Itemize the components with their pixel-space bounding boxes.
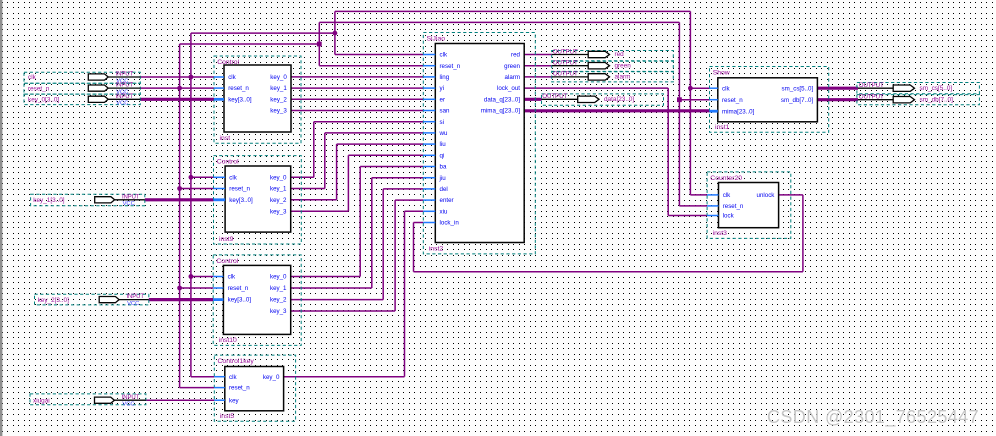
wire Control inst10 key_1 riser <box>371 178 373 288</box>
wire Counter20 unlock return y=271.7 <box>414 271 803 273</box>
svg-text:INPUT: INPUT <box>116 94 134 100</box>
svg-text:VCC: VCC <box>127 301 139 307</box>
svg-text:INPUT: INPUT <box>116 72 134 78</box>
svg-text:OUTPUT: OUTPUT <box>553 60 578 67</box>
input pin xiugai <box>30 394 146 405</box>
block Counter20 inst3 body <box>719 183 779 228</box>
wire clk net: into Counter20 clk <box>690 194 707 196</box>
wire clk net: riser x=334.9 <box>334 11 336 54</box>
svg-text:clk: clk <box>722 85 730 92</box>
junction reset_n at Control inst9 <box>177 186 182 191</box>
svg-text:key_0: key_0 <box>270 274 287 281</box>
svg-text:key_1: key_1 <box>270 85 287 92</box>
junction clk at input fanout <box>189 75 194 80</box>
SiJiao inst2 input pin stub jiu <box>423 177 435 179</box>
Control1key inst5 input pin stub key <box>214 399 225 401</box>
SiJiao inst2 input pin stub liu <box>423 143 435 145</box>
wire Control inst10 key_2 run <box>291 299 384 301</box>
wire xiugai to Control1key key <box>146 399 214 401</box>
svg-text:key_1: key_1 <box>270 186 287 193</box>
svg-text:OUTPUT: OUTPUT <box>859 94 884 101</box>
Control inst10 input pin stub reset_n <box>213 287 223 289</box>
svg-text:qi: qi <box>440 152 445 159</box>
svg-text:data_q[23..0]: data_q[23..0] <box>484 96 520 103</box>
Show inst1 input pin stub clk <box>710 87 718 89</box>
wire clk net: into Control1key clk <box>191 376 214 378</box>
svg-text:mima[23..0]: mima[23..0] <box>722 108 755 115</box>
svg-text:inst5: inst5 <box>220 413 235 420</box>
Counter20 inst3 input pin stub clk <box>707 194 718 196</box>
junction reset_n at Control inst10 <box>177 286 182 291</box>
wire Counter20 unlock run <box>779 194 803 196</box>
svg-text:key[3..0]: key[3..0] <box>228 297 252 304</box>
SiJiao inst2 input pin stub qi <box>423 154 435 156</box>
svg-text:liu: liu <box>440 141 447 148</box>
svg-text:key_2: key_2 <box>270 96 287 103</box>
wire SiJiao green to output pin <box>524 65 552 67</box>
svg-text:reset_n: reset_n <box>440 63 461 70</box>
wire SiJiao alarm to output pin <box>524 76 552 78</box>
svg-text:reset_n: reset_n <box>229 186 250 193</box>
wire Control inst9 key_3 into SiJiao <box>348 154 423 156</box>
wire bus key_0[3..0] to Control inst <box>140 98 214 101</box>
wire Control1key key_0 run <box>284 376 405 378</box>
wire bus Show sm_cs to output pin <box>817 87 858 90</box>
block Control inst10 body <box>223 265 290 334</box>
Control inst input pin stub reset_n <box>214 87 224 89</box>
SiJiao inst2 input pin stub si <box>423 121 435 123</box>
junction clk at Control inst10 <box>189 274 194 279</box>
wire clk net: right vertical x=690.4 <box>689 11 691 195</box>
svg-text:clk: clk <box>440 52 448 59</box>
svg-text:key_0[3..0]: key_0[3..0] <box>28 97 59 104</box>
block Control inst10 selection box <box>213 255 301 346</box>
svg-text:wu: wu <box>439 130 448 137</box>
Control1key inst5 input pin stub reset_n <box>214 387 225 389</box>
block Counter20 inst3 selection box <box>707 172 791 239</box>
wire reset_n net: distribution vertical x=179.6 <box>179 44 181 388</box>
junction clk at Control inst9 <box>189 175 194 180</box>
svg-text:alarm: alarm <box>505 74 520 81</box>
svg-text:san: san <box>440 108 451 115</box>
svg-text:key_0: key_0 <box>263 374 280 381</box>
wire reset_n net: into Control inst9 reset_n <box>180 188 214 190</box>
wire Control inst10 key_0 into SiJiao <box>360 166 423 168</box>
wire Control inst9 key_1 run <box>291 188 325 190</box>
Show inst1 input pin stub reset_n <box>710 99 718 101</box>
svg-text:data[23..0]: data[23..0] <box>604 96 634 103</box>
svg-text:reset_n: reset_n <box>28 85 50 92</box>
svg-text:clk: clk <box>228 74 236 81</box>
wire Control inst9 key_0 into SiJiao <box>314 121 424 123</box>
svg-text:INPUT: INPUT <box>126 294 144 300</box>
svg-text:reset_n: reset_n <box>229 385 250 392</box>
wire Control inst9 key_2 riser <box>336 144 338 200</box>
block Control inst9 selection box <box>214 156 302 244</box>
output pin sm_db[7..0] <box>857 95 980 105</box>
wire Control inst9 key_3 run <box>291 210 349 212</box>
svg-text:mima_q[23..0]: mima_q[23..0] <box>481 108 520 115</box>
wire reset_n net: right vertical x=679.4 <box>678 22 680 206</box>
input pin clk <box>24 72 140 83</box>
SiJiao inst2 input pin stub ling <box>423 76 435 78</box>
wire Control inst key_1 to SiJiao yi <box>291 87 423 89</box>
Control1key inst5 input pin stub clk <box>214 376 225 378</box>
svg-text:key_1: key_1 <box>270 285 287 292</box>
svg-text:clk: clk <box>229 374 237 381</box>
block SiJiao inst2 body <box>435 44 524 243</box>
wire SiJiao lock_out run <box>524 87 668 89</box>
wire reset_n net: rail y=44.0 <box>180 43 320 45</box>
block Control inst body <box>224 65 291 132</box>
svg-text:reset_n: reset_n <box>228 85 249 92</box>
SiJiao inst2 input pin stub lock_in <box>423 222 435 224</box>
wire Control inst key_3 to SiJiao san <box>291 110 423 112</box>
wire Control inst key_0 to SiJiao ling <box>291 76 423 78</box>
wire clk net: input run to Control inst <box>140 76 214 78</box>
wire Control inst9 key_1 riser <box>324 133 326 189</box>
svg-text:INPUT: INPUT <box>116 83 134 89</box>
Counter20 inst3 input pin stub lock <box>707 215 718 217</box>
Counter20 inst3 input pin stub reset_n <box>707 205 718 207</box>
wire clk net: into Control inst9 clk <box>191 176 214 178</box>
svg-text:key_2: key_2 <box>270 297 287 304</box>
wire Control inst9 key_0 riser <box>313 122 315 178</box>
SiJiao inst2 input pin stub reset_n <box>423 65 435 67</box>
Control inst10 input pin stub clk <box>213 276 223 278</box>
wire Control inst10 key_3 run <box>291 310 395 312</box>
input pin key_2[3..0] <box>35 294 149 305</box>
junction reset_n at Show <box>677 97 682 102</box>
junction clk at Show <box>688 86 693 91</box>
Control inst9 input pin stub reset_n <box>214 188 226 190</box>
svg-text:INPUT: INPUT <box>122 395 140 401</box>
wire Counter20 unlock riser x=413.5 <box>413 223 415 272</box>
svg-text:VCC: VCC <box>116 101 128 107</box>
wire Control inst10 key_0 run <box>291 276 361 278</box>
svg-text:clk: clk <box>723 192 731 199</box>
block Show inst1 selection box <box>710 67 829 133</box>
svg-text:lock_in: lock_in <box>440 220 460 227</box>
svg-text:clk: clk <box>228 274 236 281</box>
wire Control inst10 key_0 riser <box>359 167 361 277</box>
wire Control1key key_0 into SiJiao xiu <box>405 210 424 212</box>
svg-text:key_2: key_2 <box>270 197 287 204</box>
block Show inst1 body <box>718 78 818 122</box>
svg-text:clk: clk <box>28 74 37 81</box>
svg-text:er: er <box>440 96 446 103</box>
svg-text:inst: inst <box>220 135 231 142</box>
Show inst1 input pin stub mima[23..0] <box>710 110 718 113</box>
wire Control inst key_2 to SiJiao er <box>291 98 423 100</box>
svg-text:xiugai: xiugai <box>33 397 50 404</box>
svg-text:alarm: alarm <box>615 74 631 81</box>
svg-text:lock_out: lock_out <box>497 85 520 92</box>
svg-text:unlock: unlock <box>757 192 776 199</box>
wire Control inst10 key_3 riser <box>394 200 396 311</box>
wire Counter20 unlock drop x=802.9 <box>802 195 804 272</box>
wire clk net: into Show clk <box>690 87 709 89</box>
svg-text:key: key <box>229 397 240 404</box>
svg-text:red: red <box>615 51 625 58</box>
svg-text:sm_cs[5..0]: sm_cs[5..0] <box>920 85 953 92</box>
output pin red <box>552 51 674 61</box>
svg-text:key_3: key_3 <box>270 308 287 315</box>
svg-text:Counter20: Counter20 <box>710 175 742 182</box>
svg-text:sm_cs[5..0]: sm_cs[5..0] <box>782 85 814 92</box>
wire reset_n net: input run to Control inst <box>140 87 214 89</box>
window left edge <box>0 0 2 436</box>
wire Control inst10 key_2 riser <box>382 189 384 300</box>
output pin green <box>552 61 674 71</box>
svg-text:clk: clk <box>229 174 237 181</box>
wire SiJiao lock_out drop x=668.2 <box>667 88 669 215</box>
wire reset_n net: into Control inst10 reset_n <box>180 287 214 289</box>
junction reset_n at input fanout <box>177 86 182 91</box>
block SiJiao inst2 selection box <box>423 33 535 254</box>
svg-text:green: green <box>615 62 632 69</box>
svg-text:SiJiao: SiJiao <box>427 36 446 43</box>
svg-text:Control: Control <box>217 159 239 166</box>
svg-text:Control: Control <box>216 258 238 265</box>
svg-text:OUTPUT: OUTPUT <box>859 82 884 89</box>
Control inst input pin stub key[3..0] <box>214 98 224 101</box>
SiJiao inst2 input pin stub wu <box>423 132 435 134</box>
svg-text:si: si <box>440 119 444 126</box>
svg-text:reset_n: reset_n <box>228 285 249 292</box>
watermark CSDN <box>767 407 979 428</box>
wire bus key_1[3..0] to Control inst9 <box>145 198 214 201</box>
svg-text:del: del <box>440 186 448 193</box>
junction clk rail corner <box>333 31 338 36</box>
SiJiao inst2 input pin stub xiu <box>423 210 435 212</box>
wire reset_n net: into Control1key reset_n <box>180 387 215 389</box>
svg-text:key_1[3..0]: key_1[3..0] <box>33 197 64 204</box>
svg-text:OUTPUT: OUTPUT <box>553 48 578 55</box>
block Control1key inst5 selection box <box>214 355 295 421</box>
SiJiao inst2 input pin stub enter <box>423 199 435 201</box>
svg-text:key[3..0]: key[3..0] <box>229 197 253 204</box>
svg-text:jiu: jiu <box>439 175 447 182</box>
svg-text:ling: ling <box>440 74 450 81</box>
block Control inst9 body <box>225 166 291 232</box>
block Control1key inst5 body <box>225 367 284 411</box>
svg-text:inst1: inst1 <box>715 124 730 131</box>
wire Control inst9 key_2 run <box>291 199 337 201</box>
wire Counter20 unlock into SiJiao lock_in <box>414 222 424 224</box>
svg-text:red: red <box>511 52 521 59</box>
svg-text:VCC: VCC <box>122 402 134 408</box>
wire clk net: rail y=33.1 <box>191 32 335 34</box>
svg-text:inst3: inst3 <box>713 230 728 237</box>
svg-text:green: green <box>504 63 520 70</box>
wire reset_n net: top run y=22.4 <box>319 21 679 23</box>
svg-text:key_3: key_3 <box>270 108 287 115</box>
wire Control inst9 key_0 run <box>291 176 314 178</box>
wire Control inst10 key_2 into SiJiao <box>383 188 423 190</box>
output pin alarm <box>552 72 674 82</box>
wire bus SiJiao mima_q to Show mima <box>524 109 709 112</box>
junction reset_n rail corner <box>317 42 322 47</box>
Control inst9 input pin stub key[3..0] <box>214 198 226 201</box>
wire reset_n net: into SiJiao reset_n <box>319 65 423 67</box>
svg-text:ba: ba <box>440 164 447 171</box>
input pin key_0[3..0] <box>24 94 140 105</box>
SiJiao inst2 input pin stub del <box>423 188 435 190</box>
svg-text:sm_db[7..0]: sm_db[7..0] <box>781 97 814 104</box>
block Control inst selection box <box>214 56 301 143</box>
svg-text:Show: Show <box>713 70 730 77</box>
wire reset_n net: into Show reset_n <box>679 99 709 101</box>
svg-text:key_0: key_0 <box>270 74 287 81</box>
svg-text:VCC: VCC <box>123 201 135 207</box>
wire Control inst10 key_1 run <box>291 287 372 289</box>
wire reset_n net: riser x=319.3 <box>318 22 320 65</box>
svg-text:xiu: xiu <box>440 208 448 215</box>
svg-text:inst9: inst9 <box>219 236 234 243</box>
wire bus key_2[3..0] to Control inst10 <box>149 298 213 301</box>
SiJiao inst2 input pin stub ba <box>423 166 435 168</box>
wire bus SiJiao data_q to output pin <box>524 98 541 101</box>
wire reset_n net: into Counter20 reset_n <box>679 205 707 207</box>
svg-text:key_2[3..0]: key_2[3..0] <box>38 297 69 304</box>
svg-text:sm_db[7..0]: sm_db[7..0] <box>920 96 954 103</box>
wire clk net: top run y=11.4 <box>335 10 691 12</box>
svg-text:Control1key: Control1key <box>218 358 255 365</box>
svg-text:lock: lock <box>723 213 735 220</box>
wire SiJiao lock_out into Counter20 lock <box>668 215 707 217</box>
svg-text:inst2: inst2 <box>429 246 444 253</box>
svg-text:enter: enter <box>440 197 454 204</box>
svg-text:OUTPUT: OUTPUT <box>553 71 578 78</box>
svg-text:key_3: key_3 <box>270 208 287 215</box>
SiJiao inst2 input pin stub er <box>423 98 435 100</box>
wire clk net: distribution vertical x=190.9 <box>190 33 192 377</box>
svg-text:inst10: inst10 <box>219 337 237 344</box>
wire clk net: into SiJiao clk <box>335 54 423 56</box>
wire clk net: into Control inst10 clk <box>191 276 213 278</box>
svg-text:OUTPUT: OUTPUT <box>542 93 567 100</box>
svg-text:reset_n: reset_n <box>722 97 743 104</box>
SiJiao inst2 input pin stub yi <box>423 87 435 89</box>
wire bus Show sm_db to output pin <box>817 98 858 101</box>
Control inst10 input pin stub key[3..0] <box>213 298 223 301</box>
svg-text:INPUT: INPUT <box>122 194 140 200</box>
wire Control inst10 key_3 into SiJiao <box>395 199 423 201</box>
svg-text:yi: yi <box>440 85 444 92</box>
svg-text:Control: Control <box>217 59 239 66</box>
svg-text:key_0: key_0 <box>270 174 287 181</box>
wire Control inst9 key_1 into SiJiao <box>325 132 424 134</box>
wire Control inst9 key_3 riser <box>347 155 349 211</box>
Control inst input pin stub clk <box>214 76 224 78</box>
svg-text:key[3..0]: key[3..0] <box>228 96 252 103</box>
wire Control1key key_0 riser <box>404 211 406 376</box>
svg-text:reset_n: reset_n <box>723 203 744 210</box>
input pin key_1[3..0] <box>31 194 145 206</box>
wire Control inst9 key_2 into SiJiao <box>337 143 424 145</box>
input pin reset_n <box>24 83 140 94</box>
Control inst9 input pin stub clk <box>214 176 226 178</box>
wire SiJiao red to output pin <box>524 54 552 56</box>
wire Control inst10 key_1 into SiJiao <box>372 177 424 179</box>
SiJiao inst2 input pin stub san <box>423 110 435 112</box>
output pin data[23..0] <box>542 94 664 105</box>
SiJiao inst2 input pin stub clk <box>423 54 435 56</box>
output pin sm_cs[5..0] <box>857 83 980 94</box>
